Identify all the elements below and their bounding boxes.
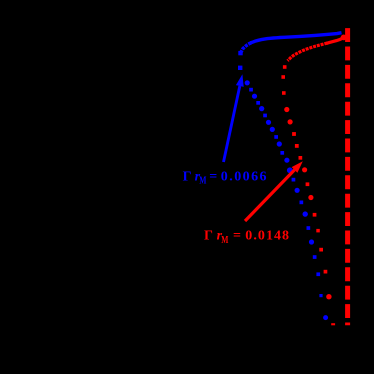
svg-text:0.0148: 0.0148: [245, 228, 290, 243]
blue label: Gamma r_M = 0.0066: [183, 169, 268, 186]
red curve: end circle at dashed line: [341, 35, 347, 41]
red curve: plateau branch (dotted): [326, 37, 343, 43]
svg-text:M: M: [199, 174, 207, 186]
vertical red dashed line (limit): [345, 28, 350, 325]
blue curve: plateau branch (dotted, merging): [241, 33, 342, 53]
red curve: clipped marker at bottom axis: [331, 323, 335, 325]
red curve: descending branch markers (alternating): [284, 107, 331, 300]
svg-text:0.0066: 0.0066: [221, 169, 268, 184]
svg-text:Γ: Γ: [204, 228, 213, 243]
svg-text:=: =: [233, 228, 241, 243]
svg-text:Γ: Γ: [183, 169, 192, 184]
red label: Gamma r_M = 0.0148: [204, 228, 290, 245]
blue annotation arrow: [224, 74, 244, 162]
blue curve: knee marker: [238, 51, 242, 55]
blue curve: descending branch markers (alternating circles and squares): [245, 80, 329, 320]
red annotation arrow: [245, 161, 303, 221]
blue curve: isolated marker below knee: [238, 66, 242, 70]
svg-text:=: =: [209, 169, 217, 184]
svg-text:M: M: [221, 234, 229, 246]
red curve: steep section markers: [281, 65, 286, 95]
